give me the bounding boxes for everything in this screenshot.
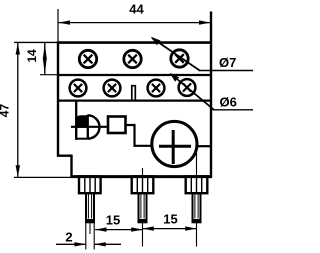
screw B3 row2 bbox=[148, 80, 165, 97]
adjustment screw side-view: filled upper-left quadrant bbox=[76, 115, 88, 127]
dim 15a: left arrowhead bbox=[95, 227, 107, 231]
dim 14: down arrowhead bbox=[43, 58, 47, 76]
row divider 2 (row2 bottom) bbox=[57, 99, 211, 101]
screw B4 row2 bbox=[179, 79, 196, 96]
rotor big circle bbox=[152, 121, 197, 166]
pin 1 shaft bbox=[86, 193, 94, 222]
dim 15 (pin2-pin3): dimension line bbox=[143, 228, 197, 230]
pin 2 centerline above bbox=[142, 168, 144, 177]
screw B1 row2 bbox=[70, 80, 87, 97]
pin 3 centerline below bbox=[196, 223, 198, 247]
dim 15b: right arrowhead bbox=[185, 226, 197, 230]
dim 2: right line + arrow bbox=[95, 243, 121, 245]
dim 44: right arrowhead bbox=[199, 20, 211, 24]
dim 14: dimension line bbox=[44, 43, 46, 75]
adjustment screw side-view: horizontal center line bbox=[71, 126, 108, 128]
leader Ø6: diagonal bbox=[171, 74, 214, 110]
adjustment screw side-view: flat edge + connector bbox=[75, 100, 77, 140]
pin 3 shaft bbox=[193, 193, 201, 222]
rotor cross horizontal bbox=[159, 145, 191, 148]
adjustment screw side-view: semicircle bbox=[88, 115, 100, 138]
pin 2 shaft bbox=[139, 193, 147, 222]
rotor right tangent line bbox=[197, 145, 211, 147]
screw A2 row1 bbox=[124, 50, 141, 67]
body left edge bbox=[57, 42, 59, 157]
dim 47: up arrowhead bbox=[16, 43, 20, 55]
svg-text:15: 15 bbox=[106, 213, 120, 228]
pin 2 collar bbox=[132, 176, 154, 193]
dim 15b: left arrowhead bbox=[142, 226, 154, 230]
dim 47: down arrowhead bbox=[16, 165, 20, 177]
body bottom edge bbox=[71, 175, 213, 178]
pin 2 centerline below bbox=[142, 223, 144, 247]
bottom extension line (left, for 47 dim) bbox=[14, 176, 71, 178]
svg-text:Ø6: Ø6 bbox=[220, 95, 237, 110]
dim 14: up arrowhead bbox=[43, 43, 47, 60]
adjustment screw side-view: vertical cross line bbox=[87, 115, 89, 140]
left step vertical bbox=[70, 155, 72, 178]
svg-text:2: 2 bbox=[65, 230, 72, 245]
leader Ø6: shoulder bbox=[213, 109, 254, 111]
top edge extension line (left, for 47/14 dims) bbox=[14, 41, 57, 43]
row divider 1 bbox=[57, 74, 211, 76]
dim 15a: right arrowhead bbox=[131, 227, 143, 231]
body right edge (with extension up to 44 dim) bbox=[210, 12, 212, 178]
leader Ø7: shoulder bbox=[199, 70, 254, 72]
screw A3 row1 bbox=[171, 50, 188, 67]
svg-text:14: 14 bbox=[25, 49, 39, 63]
pin 1 width extension lines bbox=[85, 223, 87, 250]
left step horizontal bbox=[57, 154, 73, 156]
dim 44: dimension line bbox=[59, 22, 211, 24]
pin 1 collar bbox=[79, 176, 101, 193]
leader Ø6: arrowhead bbox=[170, 73, 180, 82]
svg-text:44: 44 bbox=[129, 2, 144, 17]
dim 44: extension line left bbox=[57, 9, 59, 42]
adjustment screw side-view: lower-left square bbox=[76, 127, 88, 139]
coupling block (small square) bbox=[108, 117, 126, 134]
dim 15 (pin1-pin2): dimension line bbox=[95, 229, 142, 231]
screw B2 row2 bbox=[104, 80, 121, 97]
dim 14: bottom extension line bbox=[40, 74, 57, 76]
svg-text:47: 47 bbox=[0, 104, 11, 118]
rotor cross vertical bbox=[172, 130, 175, 164]
screw A1 row1 bbox=[79, 50, 96, 67]
dim 47: dimension line bbox=[17, 43, 19, 177]
leader Ø7: arrowhead bbox=[151, 37, 161, 45]
pin 3 centerline above bbox=[196, 153, 198, 177]
pin 1 shaft lines through collar + centerline bbox=[84, 177, 86, 194]
svg-text:15: 15 bbox=[163, 212, 177, 227]
dim 2: left line + arrow bbox=[56, 243, 86, 245]
dim 44: left arrowhead bbox=[58, 20, 70, 24]
wire from block to rotor bbox=[127, 125, 152, 146]
svg-text:Ø7: Ø7 bbox=[219, 55, 236, 70]
rib tab between row2 screws bbox=[132, 86, 136, 100]
leader Ø7: diagonal bbox=[152, 38, 200, 71]
body top edge bbox=[57, 41, 212, 44]
pin 3 collar bbox=[186, 176, 208, 193]
